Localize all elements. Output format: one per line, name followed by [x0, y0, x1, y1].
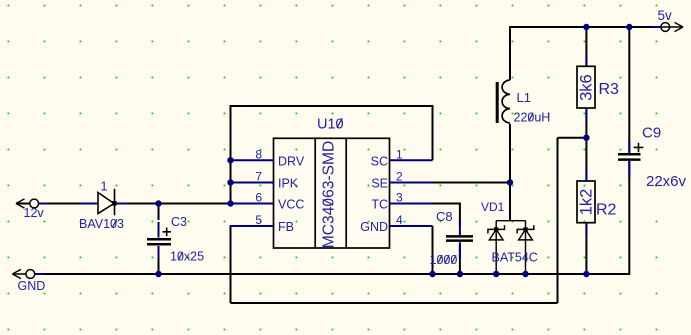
svg-text:4: 4	[396, 213, 403, 227]
capacitor C3	[147, 222, 171, 258]
wire GND pin down to rail	[432, 226, 434, 274]
wire divider node to feedback branch	[558, 137, 587, 139]
wire R2 top lead	[585, 139, 587, 181]
junction rail / R2	[583, 271, 589, 277]
svg-text:220uH: 220uH	[514, 111, 551, 125]
pin name DRV	[278, 155, 305, 169]
value 220uH	[514, 111, 551, 125]
svg-text:8: 8	[255, 148, 262, 162]
label 5v	[658, 8, 673, 23]
label VD1	[481, 200, 505, 214]
wire L1 top lead	[509, 26, 511, 80]
diode VD1 BAT54C dual schottky	[488, 221, 534, 274]
wire 5v top rail	[510, 26, 661, 28]
svg-text:DRV: DRV	[278, 155, 305, 169]
value BAV103	[79, 217, 124, 231]
wire R2 bottom to ground rail	[585, 223, 587, 275]
wire feedback left vertical to FB pin	[230, 226, 232, 303]
op-amp U10 MC34063-SMD box	[274, 138, 390, 248]
wire C3 bottom lead	[158, 246, 160, 274]
svg-text:C3: C3	[171, 215, 187, 229]
pin name IPK	[278, 177, 299, 191]
svg-text:TC: TC	[371, 198, 388, 212]
pin name GND	[360, 220, 388, 234]
wire C9 top lead	[628, 28, 630, 153]
resistor R2	[577, 181, 595, 223]
svg-text:GND: GND	[18, 279, 46, 293]
svg-text:VD1: VD1	[481, 200, 505, 214]
wire C8 bottom lead	[459, 244, 461, 274]
svg-text:5: 5	[255, 213, 262, 227]
pin number 2	[396, 170, 403, 184]
svg-text:3: 3	[396, 191, 403, 205]
label L1	[517, 90, 531, 105]
wire feedback vertical	[557, 138, 559, 303]
label C9	[642, 125, 661, 142]
svg-text:2: 2	[396, 170, 403, 184]
svg-text:1: 1	[101, 180, 108, 194]
pin name SE	[371, 177, 388, 191]
label U10	[317, 116, 344, 132]
wire diode cathode to VCC junction	[118, 203, 231, 205]
svg-text:6: 6	[255, 191, 262, 205]
pin name TC	[371, 198, 388, 212]
label C3	[171, 215, 187, 229]
resistor R3	[577, 66, 595, 108]
svg-text:U10: U10	[317, 116, 344, 132]
inductor L1	[497, 80, 510, 123]
wire FB stub connection	[230, 225, 274, 227]
junction 5v rail / R3	[583, 24, 589, 30]
junction rail / IC GND	[429, 271, 435, 277]
wire VCC loop top horizontal	[230, 105, 434, 107]
wire C3 top connection	[158, 205, 160, 220]
pin name SC	[371, 155, 388, 169]
svg-text:FB: FB	[278, 220, 294, 234]
pins 8,7,6,5 left side U10	[231, 160, 274, 226]
pin number 7	[255, 170, 262, 184]
svg-text:3k6: 3k6	[578, 74, 596, 101]
svg-text:IPK: IPK	[278, 177, 299, 191]
svg-text:C8: C8	[436, 209, 453, 224]
svg-text:L1: L1	[517, 90, 531, 105]
capacitor C9	[618, 140, 643, 177]
svg-text:SE: SE	[371, 177, 388, 191]
capacitor C8	[446, 220, 473, 258]
svg-text:MC34063-SMD: MC34063-SMD	[321, 141, 338, 248]
svg-text:1: 1	[396, 148, 403, 162]
wire R3 bottom to divider node	[585, 108, 587, 138]
svg-text:R3: R3	[599, 81, 620, 98]
svg-text:1k2: 1k2	[578, 189, 596, 216]
pin number 4	[396, 213, 403, 227]
svg-text:BAV103: BAV103	[79, 217, 124, 231]
wire R3 top lead	[585, 28, 587, 67]
junction pin7 IPK	[227, 179, 233, 185]
pin name VCC	[278, 198, 304, 212]
svg-text:5v: 5v	[658, 8, 673, 23]
svg-text:22x6v: 22x6v	[646, 173, 687, 190]
junction 5v rail / C9	[626, 24, 632, 30]
wire VCC loop right vertical to pin1	[432, 105, 434, 160]
pin number 8	[255, 148, 262, 162]
wire TC pin to C8	[433, 204, 460, 227]
value BAT54C	[492, 251, 538, 265]
svg-text:BAT54C: BAT54C	[492, 251, 538, 265]
wire switch node vertical (L1 bottom / VD1 stem)	[509, 124, 511, 221]
wire C9 bottom lead	[628, 161, 630, 275]
junction pin6 VCC	[227, 200, 233, 206]
label C8	[436, 209, 453, 224]
svg-text:SC: SC	[371, 155, 388, 169]
svg-text:VCC: VCC	[278, 198, 304, 212]
port 5v output	[652, 22, 683, 31]
svg-text:7: 7	[255, 170, 262, 184]
svg-text:R2: R2	[596, 202, 617, 219]
junction switch node SE/L1/VD1	[507, 179, 513, 185]
pin name FB	[278, 220, 294, 234]
svg-text:C9: C9	[642, 125, 661, 142]
port 12v	[16, 199, 48, 208]
label 12v	[24, 206, 45, 220]
junction pin8 DRV	[227, 157, 233, 163]
junction rail / VD1 right	[522, 271, 528, 277]
port GND	[12, 269, 44, 278]
svg-text:GND: GND	[360, 220, 388, 234]
diode 1 BAV103	[80, 189, 128, 216]
svg-text:10x25: 10x25	[170, 250, 204, 264]
rotated part value MC34063-SMD	[321, 141, 338, 248]
svg-text:12v: 12v	[24, 206, 45, 220]
wire ground rail	[44, 273, 629, 275]
wire feedback bottom horizontal	[231, 302, 558, 304]
label R3	[599, 81, 620, 98]
wire 12v input net	[16, 203, 94, 205]
junction divider R3/R2/FB	[583, 135, 589, 141]
value 22x6v	[646, 173, 687, 190]
label R2	[596, 202, 617, 219]
value 1000	[430, 253, 458, 267]
pin number 3	[396, 191, 403, 205]
junction rail / C3	[155, 271, 161, 277]
label GND	[18, 279, 46, 293]
pin number 1 of diode	[101, 180, 108, 194]
wire VCC loop left vertical	[230, 106, 232, 204]
junction 12v / C3	[155, 200, 161, 206]
value 10x25	[170, 250, 204, 264]
pin number 5	[255, 213, 262, 227]
pins 1,2,3,4 right side U10	[390, 160, 433, 226]
wire SE pin to switch node	[433, 182, 511, 184]
pin number 1	[396, 148, 403, 162]
junction rail / C8	[457, 271, 463, 277]
junction rail / VD1 left	[493, 271, 499, 277]
pin number 6	[255, 191, 262, 205]
